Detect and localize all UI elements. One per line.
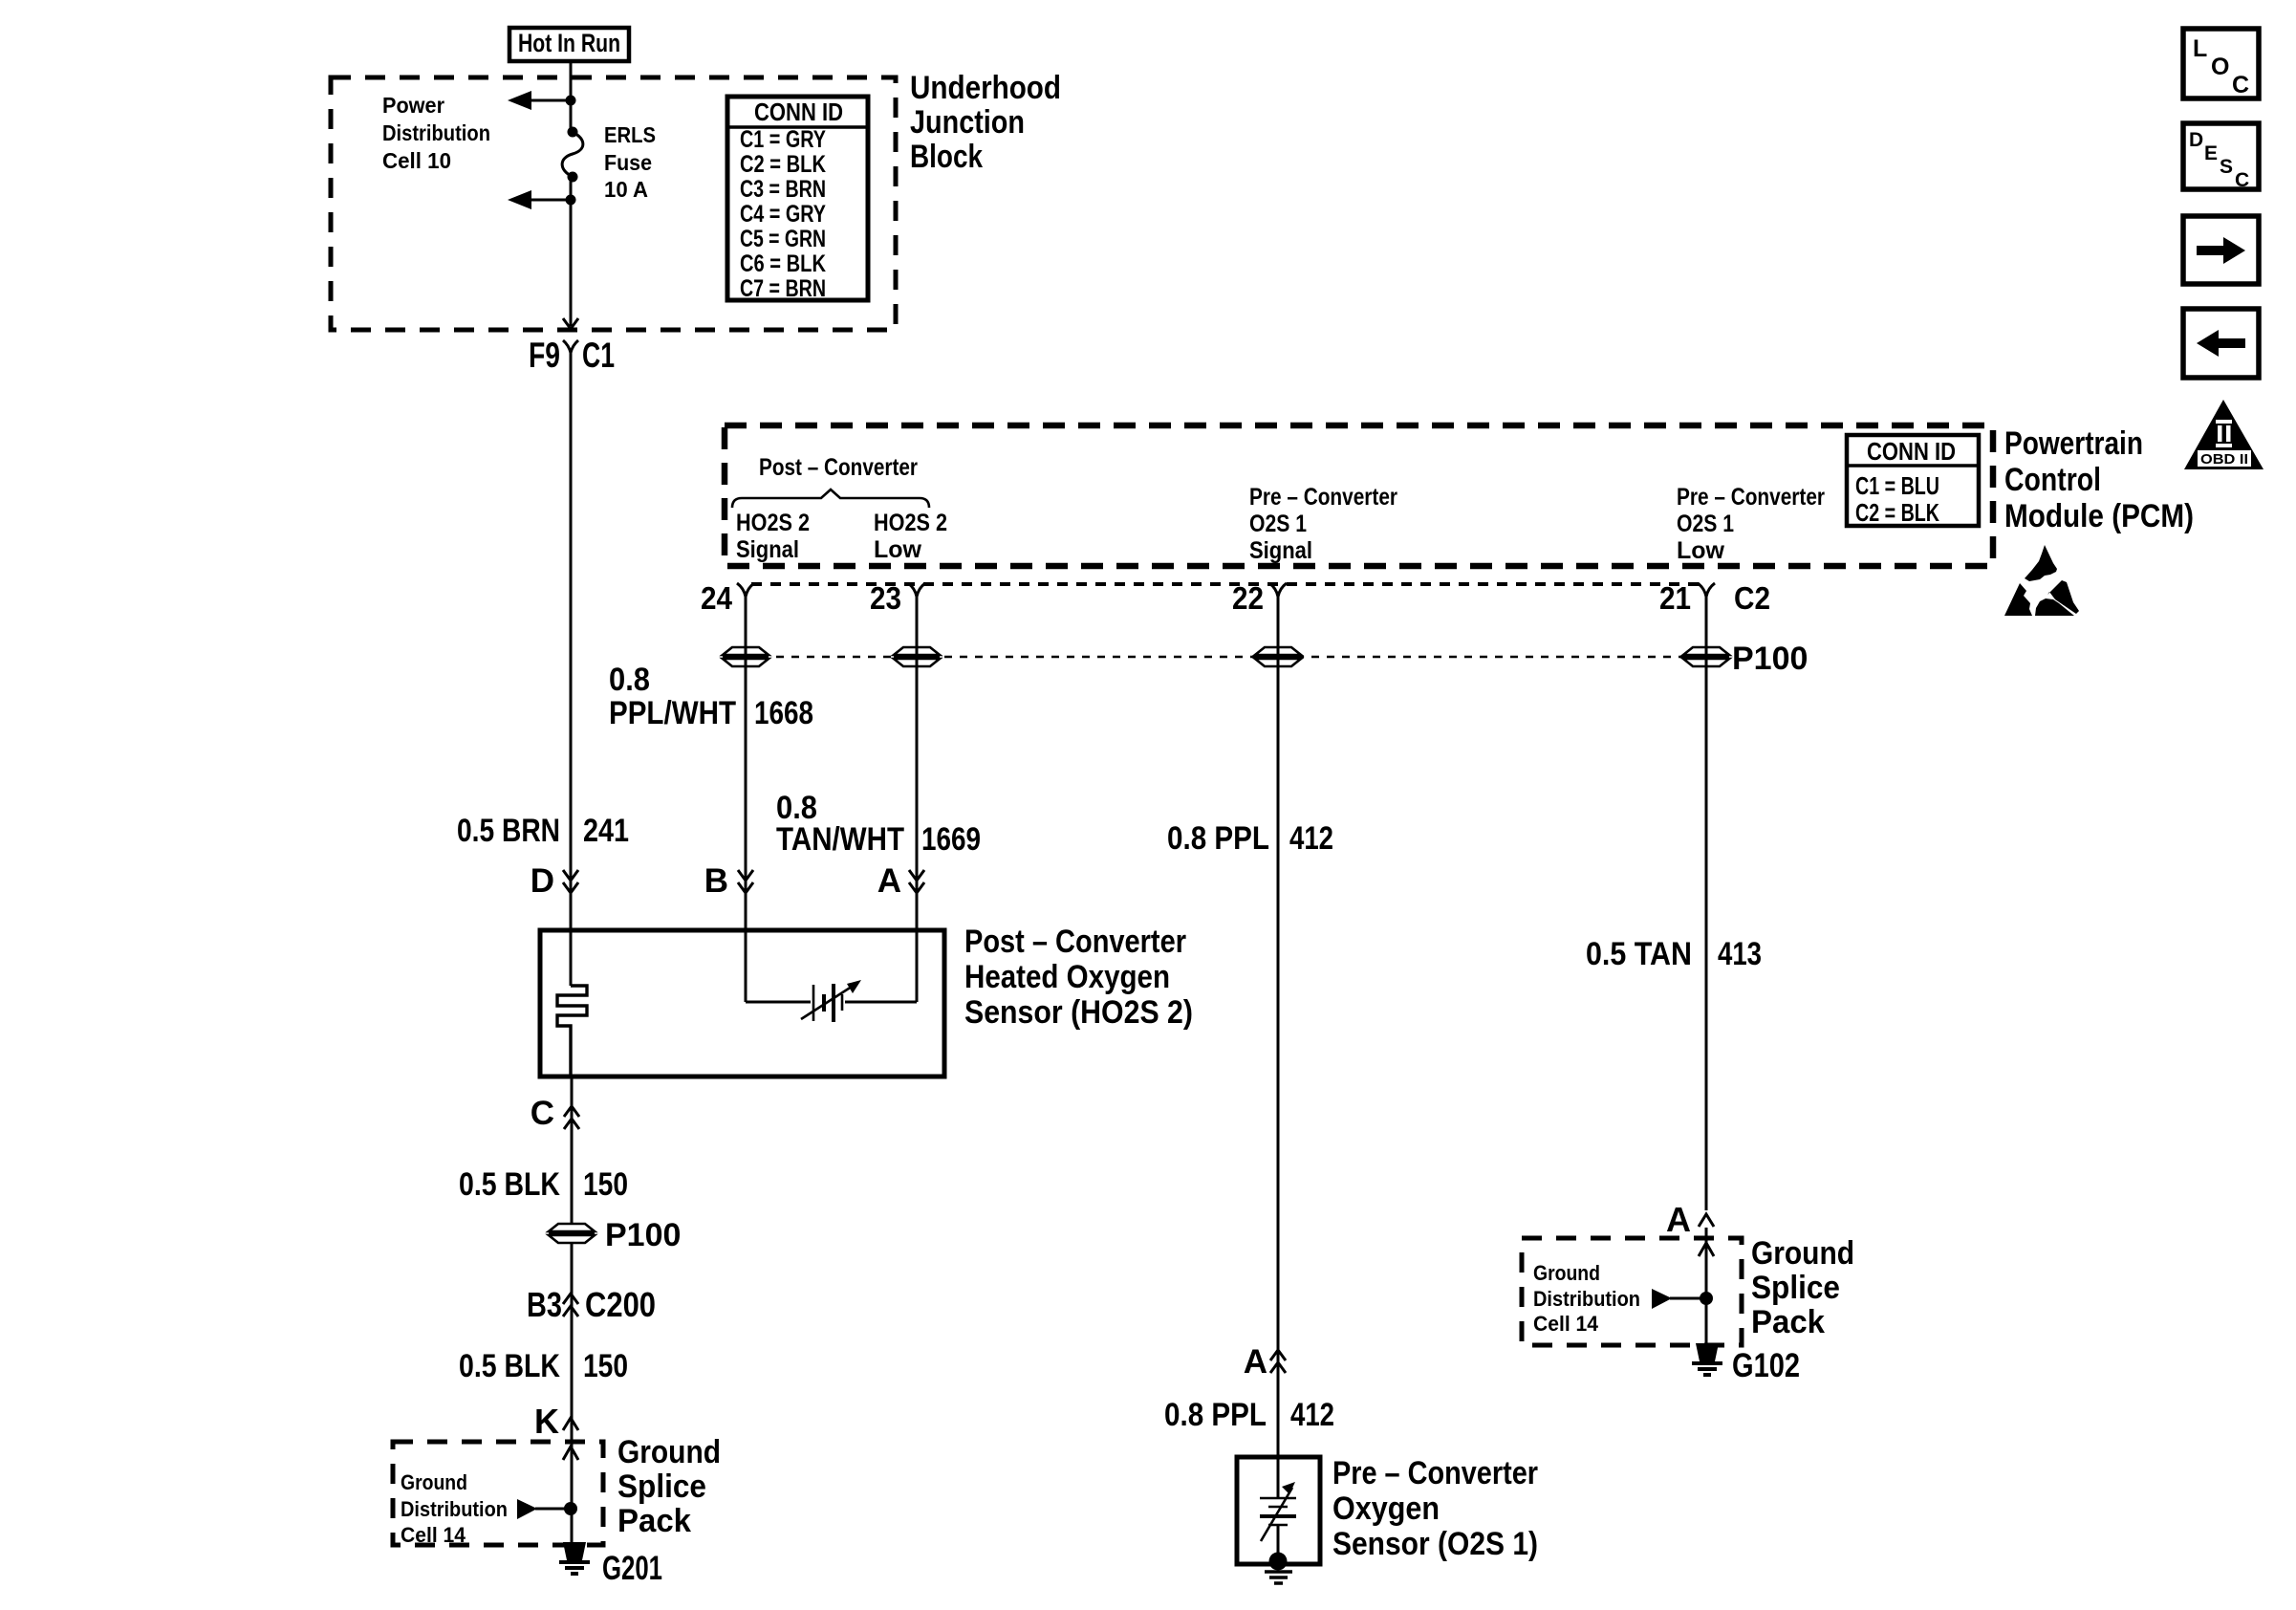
svg-text:C: C	[2235, 169, 2249, 191]
label: Post-Converter Heated Oxygen Sensor (HO2S 2)	[964, 924, 1193, 1031]
underhood junction block dashed box	[331, 77, 896, 330]
label: 0.8 TAN/WHT 1669	[776, 790, 981, 858]
svg-text:TAN/WHT: TAN/WHT	[776, 821, 904, 858]
svg-text:Ground: Ground	[1751, 1235, 1854, 1272]
svg-text:B: B	[704, 862, 728, 900]
label: Underhood Junction Block	[910, 70, 1061, 175]
svg-text:Pack: Pack	[617, 1503, 691, 1539]
svg-text:Pre – Converter: Pre – Converter	[1677, 484, 1825, 511]
label: Ground Distribution Cell 14 (left)	[401, 1470, 508, 1547]
svg-text:O: O	[2211, 54, 2229, 80]
svg-text:L: L	[2193, 35, 2207, 62]
wire: junction1 to fuse	[570, 100, 573, 132]
node: power tap junction 1	[566, 96, 576, 106]
svg-text:A: A	[877, 862, 901, 900]
open arrowhead into splice (left)	[563, 1447, 578, 1460]
svg-text:0.5 BLK: 0.5 BLK	[459, 1166, 560, 1203]
svg-text:K: K	[534, 1402, 559, 1441]
label: Pre-Converter Oxygen Sensor (O2S 1)	[1332, 1455, 1538, 1562]
PCM dashed box	[725, 425, 1993, 566]
svg-text:C2 = BLK: C2 = BLK	[1855, 498, 1939, 527]
label: HO2S 2 Low (pin 23)	[874, 510, 947, 563]
label: 0.8 PPL/WHT 1668	[609, 662, 813, 731]
svg-text:150: 150	[583, 1348, 628, 1384]
brace over HO2S2 columns	[732, 490, 929, 508]
svg-text:0.8 PPL: 0.8 PPL	[1167, 820, 1269, 857]
svg-text:A: A	[1244, 1343, 1267, 1381]
open arrowhead into splice (right)	[1699, 1243, 1714, 1256]
label: Ground Splice Pack (right)	[1751, 1235, 1854, 1340]
connector A chevron (right ground splice)	[1666, 1200, 1714, 1239]
svg-text:O2S 1: O2S 1	[1677, 511, 1734, 537]
icon: LOC box	[2183, 29, 2259, 98]
connector K chevron	[534, 1402, 578, 1441]
inline connector lens P100 (wire 23)	[894, 647, 940, 666]
svg-text:O2S 1: O2S 1	[1249, 511, 1307, 537]
svg-text:Cell 14: Cell 14	[401, 1523, 466, 1547]
left ground splice pack dashed box	[393, 1442, 603, 1545]
inline connector lens P100 (wire 24)	[723, 647, 769, 666]
wire: junction 2 down to F9	[570, 200, 573, 326]
label: 0.8 PPL 412 (upper)	[1167, 820, 1333, 857]
svg-text:Block: Block	[910, 139, 983, 175]
svg-text:Module (PCM): Module (PCM)	[2004, 498, 2194, 534]
P100 pass-through dashed line	[746, 656, 1726, 659]
connector D chevrons	[531, 862, 578, 900]
ground symbol G102	[1692, 1343, 1722, 1375]
svg-text:Splice: Splice	[617, 1469, 706, 1505]
svg-text:Cell 14: Cell 14	[1533, 1312, 1599, 1336]
svg-text:F9: F9	[529, 336, 560, 375]
node: splice junction (left)	[564, 1502, 577, 1515]
svg-text:Post – Converter: Post – Converter	[759, 454, 918, 481]
icon: DESC box	[2183, 123, 2259, 191]
svg-text:Pre – Converter: Pre – Converter	[1249, 484, 1397, 511]
svg-text:Ground: Ground	[401, 1470, 467, 1494]
svg-text:412: 412	[1290, 1397, 1334, 1433]
svg-text:OBD II: OBD II	[2200, 451, 2248, 468]
svg-text:E: E	[2204, 142, 2218, 164]
node: O2S1 case ground dot	[1269, 1553, 1288, 1571]
label: Pre - Converter O2S 1 Signal (pin 22)	[1249, 484, 1397, 564]
svg-text:HO2S 2: HO2S 2	[736, 510, 810, 536]
svg-text:Cell 10: Cell 10	[382, 148, 451, 173]
svg-text:P100: P100	[605, 1217, 681, 1253]
svg-text:C2: C2	[1734, 580, 1770, 616]
svg-text:24: 24	[701, 580, 733, 616]
pin connector 23 (Y)	[908, 583, 925, 597]
wire: fuse to junction 2	[570, 177, 573, 200]
svg-text:G201: G201	[602, 1550, 662, 1587]
svg-text:241: 241	[583, 813, 629, 849]
ground symbol G201	[559, 1542, 590, 1574]
svg-text:10 A: 10 A	[604, 177, 648, 202]
inline connector lens P100 (wire 22)	[1255, 647, 1301, 666]
wire: 0.5 BRN 241 from F9/C1 down to HO2S2 pin D	[570, 353, 573, 986]
label: Ground Distribution Cell 14 (right)	[1533, 1261, 1640, 1336]
svg-text:C3 = BRN: C3 = BRN	[740, 176, 826, 203]
tap triangle (left splice)	[517, 1499, 571, 1519]
svg-text:150: 150	[583, 1166, 628, 1203]
svg-text:C2 = BLK: C2 = BLK	[740, 151, 826, 178]
svg-text:S: S	[2220, 156, 2233, 178]
HO2S2 sensor cell (variable battery)	[801, 980, 861, 1022]
svg-text:0.5 BRN: 0.5 BRN	[457, 813, 560, 849]
svg-text:Heated Oxygen: Heated Oxygen	[964, 959, 1170, 995]
pin connector 21 (Y)	[1698, 583, 1715, 597]
svg-text:D: D	[2189, 129, 2203, 151]
label: Powertrain Control Module (PCM)	[2004, 425, 2194, 534]
label: 0.5 BLK 150 (lower)	[459, 1348, 628, 1384]
connector C chevrons	[531, 1095, 579, 1132]
svg-text:22: 22	[1232, 580, 1264, 616]
svg-text:1668: 1668	[754, 695, 813, 731]
label: 0.5 TAN 413	[1586, 936, 1762, 972]
O2S1 sensor box	[1237, 1457, 1320, 1564]
svg-text:Pre – Converter: Pre – Converter	[1332, 1455, 1538, 1491]
svg-text:CONN ID: CONN ID	[754, 98, 843, 126]
label: 0.5 BLK 150 (upper)	[459, 1166, 628, 1203]
wire: PCM pin 21 to ground splice pack (TAN 413)	[1705, 597, 1708, 1210]
inline connector lens P100 (wire 21)	[1683, 647, 1729, 666]
svg-text:P100: P100	[1732, 641, 1808, 677]
svg-text:21: 21	[1659, 580, 1691, 616]
HO2S2 sensor cell wires	[746, 1001, 811, 1004]
svg-text:C1 = GRY: C1 = GRY	[740, 126, 826, 153]
CONN ID table (PCM)	[1847, 435, 1979, 527]
power tag: Hot In Run	[509, 28, 629, 61]
svg-text:C: C	[531, 1095, 554, 1132]
svg-text:1669: 1669	[921, 821, 981, 858]
svg-text:PPL/WHT: PPL/WHT	[609, 695, 736, 731]
svg-text:C7 = BRN: C7 = BRN	[740, 275, 826, 302]
svg-text:HO2S 2: HO2S 2	[874, 510, 947, 536]
svg-text:CONN ID: CONN ID	[1867, 437, 1956, 466]
open arrowhead into box edge	[563, 318, 578, 329]
connector B chevrons	[704, 862, 753, 900]
connector A chevrons (HO2S2)	[877, 862, 924, 900]
connector F9/C1 (Y symbol)	[529, 336, 615, 375]
tap triangle (right splice)	[1652, 1289, 1706, 1309]
label: HO2S 2 Signal (pin 24)	[736, 510, 810, 563]
svg-text:G102: G102	[1732, 1347, 1800, 1384]
svg-text:Control: Control	[2004, 462, 2101, 498]
icon: forward arrow box	[2183, 216, 2259, 284]
svg-text:0.5 BLK: 0.5 BLK	[459, 1348, 560, 1384]
svg-text:B3: B3	[527, 1285, 562, 1324]
wire: PCM pin 24 to HO2S2 pin B (PPL/WHT 1668)	[745, 597, 747, 1002]
connector B3/C200 chevrons	[527, 1285, 656, 1324]
label: Power Distribution Cell 10	[382, 93, 490, 173]
svg-text:Junction: Junction	[910, 104, 1025, 141]
connector A chevrons (O2S1)	[1244, 1343, 1286, 1381]
wire: PCM pin 23 to HO2S2 pin A (TAN/WHT 1669)	[916, 597, 919, 1002]
pin connector 22 (Y)	[1269, 583, 1287, 597]
svg-text:0.8 PPL: 0.8 PPL	[1164, 1397, 1267, 1433]
ground symbol (O2S1 case)	[1265, 1572, 1292, 1583]
svg-text:Splice: Splice	[1751, 1270, 1840, 1306]
svg-text:23: 23	[870, 580, 901, 616]
svg-text:413: 413	[1718, 936, 1762, 972]
wire: Hot In Run feed into junction block	[570, 61, 573, 100]
PCM pin row dashed line	[751, 582, 1701, 586]
svg-text:A: A	[1666, 1200, 1691, 1239]
label: ERLS Fuse 10 A	[604, 122, 656, 202]
label: 0.8 PPL 412 (lower)	[1164, 1397, 1334, 1433]
svg-text:Distribution: Distribution	[401, 1497, 508, 1521]
svg-text:Low: Low	[874, 536, 922, 563]
tap arrow 2	[508, 190, 571, 209]
svg-text:D: D	[531, 862, 554, 900]
svg-text:412: 412	[1289, 820, 1333, 857]
svg-text:Fuse: Fuse	[604, 150, 652, 175]
svg-text:Ground: Ground	[617, 1434, 721, 1470]
svg-text:Power: Power	[382, 93, 444, 118]
fuse ERLS 10 A	[562, 127, 583, 183]
svg-text:Ground: Ground	[1533, 1261, 1600, 1285]
node: splice junction (right)	[1700, 1292, 1713, 1305]
right ground splice pack dashed box	[1522, 1238, 1742, 1345]
svg-text:Hot In Run: Hot In Run	[518, 29, 620, 57]
svg-text:C200: C200	[585, 1285, 656, 1324]
wire: HO2S2 pin C to G201 (0.5 BLK 150)	[571, 1077, 574, 1544]
svg-text:Sensor (O2S 1): Sensor (O2S 1)	[1332, 1526, 1538, 1562]
svg-text:0.8: 0.8	[609, 662, 650, 698]
wire: splice pack internal (right)	[1705, 1238, 1708, 1345]
tap arrow 1 to Power Distribution	[508, 91, 571, 110]
heater element (square wave)	[557, 986, 587, 1077]
icon: ESD symbol	[2004, 545, 2079, 616]
svg-text:Post – Converter: Post – Converter	[964, 924, 1186, 960]
svg-text:ERLS: ERLS	[604, 122, 656, 147]
icon: OBD II triangle	[2184, 400, 2264, 469]
label: 0.5 BRN 241	[457, 813, 629, 849]
svg-text:0.5 TAN: 0.5 TAN	[1586, 936, 1692, 972]
svg-text:C6 = BLK: C6 = BLK	[740, 250, 826, 277]
pin connector 24 (Y)	[737, 583, 754, 597]
CONN ID table (underhood junction block)	[727, 97, 868, 302]
svg-text:Sensor (HO2S 2): Sensor (HO2S 2)	[964, 994, 1193, 1031]
svg-text:C5 = GRN: C5 = GRN	[740, 226, 826, 252]
svg-text:Low: Low	[1677, 537, 1725, 564]
label: Ground Splice Pack (left)	[617, 1434, 721, 1539]
svg-text:Underhood: Underhood	[910, 70, 1061, 106]
svg-text:Powertrain: Powertrain	[2004, 425, 2143, 462]
wire: PCM pin 22 to O2S1 pin A (PPL 412)	[1277, 597, 1280, 1457]
HO2S2 sensor box	[540, 930, 944, 1077]
svg-text:Oxygen: Oxygen	[1332, 1490, 1440, 1527]
node: power tap junction 2	[566, 195, 576, 206]
svg-text:Signal: Signal	[736, 536, 799, 563]
svg-text:C1 = BLU: C1 = BLU	[1855, 471, 1939, 500]
svg-text:Distribution: Distribution	[1533, 1287, 1640, 1311]
svg-text:Pack: Pack	[1751, 1304, 1825, 1340]
O2S1 sensor cell (variable battery)	[1260, 1457, 1296, 1556]
inline connector lens P100 (lower left)	[549, 1224, 595, 1243]
svg-text:C: C	[2232, 72, 2249, 98]
svg-text:Signal: Signal	[1249, 537, 1312, 564]
icon: back arrow box	[2183, 309, 2259, 378]
svg-text:C1: C1	[582, 336, 615, 375]
svg-text:Distribution: Distribution	[382, 120, 490, 145]
label: Pre - Converter O2S 1 Low (pin 21)	[1677, 484, 1825, 564]
svg-text:C4 = GRY: C4 = GRY	[740, 201, 826, 228]
